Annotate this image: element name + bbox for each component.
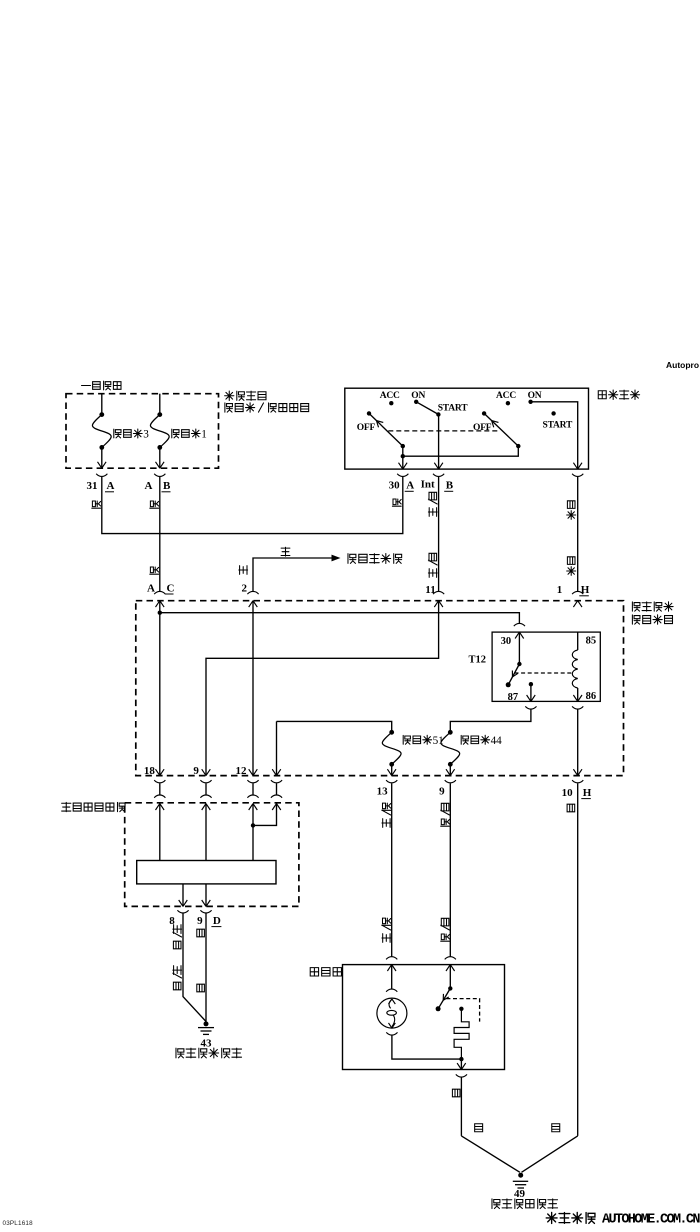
svg-text:30: 30 xyxy=(389,480,401,492)
fuse 保险丝1 xyxy=(159,394,161,415)
svg-text:9: 9 xyxy=(193,765,199,777)
svg-text:OFF: OFF xyxy=(473,423,492,433)
label 一直通电 (battery feed) xyxy=(82,385,91,387)
connector A C into IP fuse box xyxy=(154,591,165,594)
wire 11 to 9 inside box xyxy=(206,601,439,776)
wire black lighter to ground 49 xyxy=(461,1136,520,1172)
wire to terminal below 12 xyxy=(276,721,278,775)
svg-text:1: 1 xyxy=(557,584,563,596)
wire red: fuse1 B down to connector C xyxy=(159,477,161,591)
svg-text:31: 31 xyxy=(87,480,98,492)
footer logo 汽车之家 AUTOHOME.COM.CN xyxy=(546,1212,557,1223)
svg-text:18: 18 xyxy=(144,765,156,777)
svg-text:B: B xyxy=(163,480,171,492)
wire Int output inside box xyxy=(438,415,440,470)
svg-text:87: 87 xyxy=(508,692,518,703)
wire C inside box down to 18 xyxy=(159,601,161,776)
svg-text:ACC: ACC xyxy=(496,391,516,401)
svg-text:1: 1 xyxy=(201,429,207,441)
svg-text:30: 30 xyxy=(501,636,512,647)
switch pole 1 lever ON-START xyxy=(416,402,438,415)
wire jumper junction xyxy=(253,804,277,826)
connector below relay 87 xyxy=(525,706,536,709)
svg-text:ON: ON xyxy=(528,391,542,401)
svg-text:2: 2 xyxy=(242,583,248,595)
thermal dashed link xyxy=(446,999,479,1022)
pole links xyxy=(401,444,405,448)
bus bar xyxy=(137,861,276,884)
wire sky blue H xyxy=(577,477,579,591)
svg-text:ACC: ACC xyxy=(380,391,400,401)
lamp bulb xyxy=(391,965,393,989)
svg-text:A: A xyxy=(107,480,115,492)
relay switch 30-87 xyxy=(518,632,520,664)
svg-text:START: START xyxy=(543,421,574,431)
svg-text:H: H xyxy=(583,787,592,799)
svg-text:10: 10 xyxy=(562,787,574,799)
mechanical dashed link xyxy=(388,430,499,432)
fuse 保险丝44 fed from relay 87 xyxy=(450,710,531,733)
ground 43 仪表板左接地 xyxy=(204,1021,209,1026)
wire yellow/green 13 to lighter lamp xyxy=(391,783,393,957)
wire black H to ground 49 xyxy=(577,783,579,1136)
svg-text:49: 49 xyxy=(514,1188,526,1200)
svg-text:D: D xyxy=(213,915,221,927)
ignition switch 点火开关 box xyxy=(345,388,589,469)
svg-text:START: START xyxy=(438,403,469,413)
svg-text:8: 8 xyxy=(169,915,175,927)
wire red: fuse3 31A to ignition switch 30 xyxy=(102,477,403,534)
svg-text:9: 9 xyxy=(197,915,203,927)
connector A B below fuse 1 xyxy=(154,474,165,477)
svg-text:Int: Int xyxy=(421,478,435,490)
label 保险丝/继电器盒 xyxy=(225,403,233,412)
svg-text:11: 11 xyxy=(425,584,435,596)
bus outputs 8 and D xyxy=(182,884,184,907)
connector below relay 86 xyxy=(572,706,583,709)
wire red/black 9 to lighter switch xyxy=(449,783,451,957)
svg-text:13: 13 xyxy=(377,786,389,798)
heating element xyxy=(459,1007,463,1011)
wire purple/black Int to connector 11 xyxy=(438,477,440,591)
svg-text:AUTOHOME.COM.CN: AUTOHOME.COM.CN xyxy=(602,1213,700,1228)
svg-text:Autopro: Autopro xyxy=(666,360,699,370)
switch pole 2 lever xyxy=(484,413,518,446)
connectors below IP fuse box xyxy=(154,780,165,783)
svg-text:OFF: OFF xyxy=(357,423,376,433)
bus wire to relay T12 30 xyxy=(160,613,520,624)
svg-text:ON: ON xyxy=(411,391,425,401)
wires into body computer bus xyxy=(159,783,161,795)
lighter switch xyxy=(449,965,451,989)
wire 2 to 12 inside box xyxy=(252,601,254,776)
svg-text:03PL1618: 03PL1618 xyxy=(3,1220,34,1227)
svg-text:85: 85 xyxy=(586,636,597,647)
svg-text:B: B xyxy=(446,480,454,492)
wire black D to ground xyxy=(205,913,207,1021)
connectors 30 A / Int B below ignition switch xyxy=(433,474,444,477)
yellow branch to exterior lamps xyxy=(253,558,333,592)
label 外部灯系统 xyxy=(348,554,356,564)
svg-text:H: H xyxy=(581,584,590,596)
svg-text:9: 9 xyxy=(439,786,445,798)
svg-text:86: 86 xyxy=(586,691,597,702)
engine compartment fuse/relay box (dashed) xyxy=(66,394,219,469)
IP fuse box 仪表板下保险丝盒 (dashed) xyxy=(136,601,624,776)
cigarette lighter 点烟器 box xyxy=(343,965,505,1070)
switch pole 1 lever OFF xyxy=(369,413,403,446)
svg-text:A: A xyxy=(147,583,155,595)
body computer bus box 车身电脑母线 (dashed) xyxy=(125,803,299,907)
connector cap under ignition 30 xyxy=(397,474,408,477)
junction node on wire C xyxy=(158,611,162,615)
lamp to common wire xyxy=(392,1036,462,1060)
relay T12 box xyxy=(492,632,600,701)
relay coil 85-86 xyxy=(577,632,579,650)
svg-text:A: A xyxy=(145,480,153,492)
svg-text:3: 3 xyxy=(143,429,149,441)
wire H output inside box xyxy=(531,402,578,469)
label 发动机舱 xyxy=(225,391,234,400)
svg-text:A: A xyxy=(406,480,414,492)
fuse 保险丝51 xyxy=(277,721,392,732)
wire black/purple 8 to ground xyxy=(183,913,206,1021)
lighter output to ground xyxy=(460,1059,462,1069)
svg-text:C: C xyxy=(167,583,175,595)
connector 31 A below fuse 3 xyxy=(96,474,107,477)
svg-text:43: 43 xyxy=(201,1038,213,1050)
fuse 保险丝3 xyxy=(101,394,103,415)
ground 49 仪表板右接地 xyxy=(518,1173,523,1178)
svg-text:12: 12 xyxy=(236,765,248,777)
svg-text:4: 4 xyxy=(496,735,502,747)
svg-text:T12: T12 xyxy=(469,655,487,666)
